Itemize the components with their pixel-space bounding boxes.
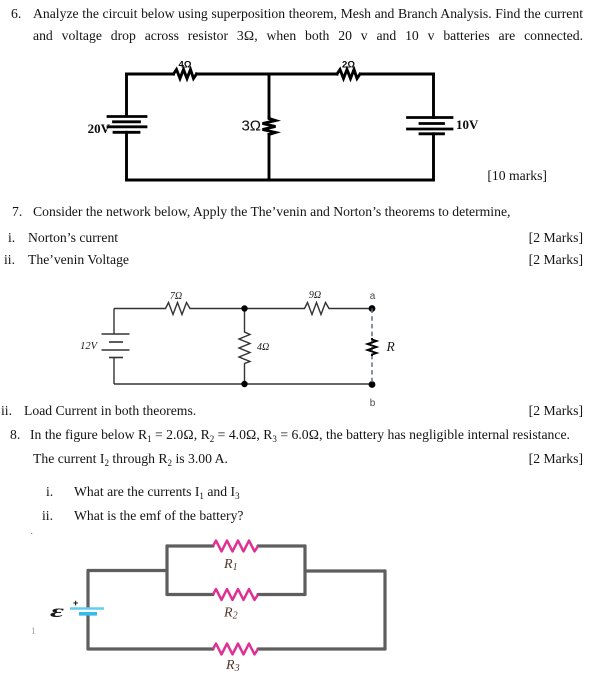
wire parallel box left edge (165, 546, 168, 595)
node a (369, 305, 376, 312)
Q6 line 1 (11, 7, 21, 21)
wire top-left segment (127, 73, 174, 76)
svg-text:+: + (73, 598, 78, 608)
svg-text:a: a (370, 291, 376, 302)
resistor R3 (213, 644, 258, 655)
svg-text:R3: R3 (225, 658, 240, 674)
wire bottom left segment c3 (88, 647, 213, 650)
wire left vertical top (125, 74, 128, 116)
svg-text:R: R (386, 339, 396, 354)
wire box top edge right (258, 544, 305, 547)
svg-text:R2: R2 (223, 606, 238, 622)
marks Q6 (487, 169, 547, 183)
Q8 i (46, 485, 53, 499)
resistor 9ohm (302, 303, 332, 315)
resistor 7ohm (163, 303, 193, 315)
wire top-left segment c2 (114, 308, 163, 310)
resistor 4ohm vertical (239, 330, 250, 364)
wire left vertical bottom (125, 132, 128, 180)
svg-text:3Ω: 3Ω (241, 118, 261, 135)
wire box bottom edge left (167, 593, 213, 596)
wire left vertical upper c3 (86, 571, 89, 608)
Q7 ii (4, 253, 15, 267)
wire left vertical bottom c2 (113, 358, 115, 385)
wire middle vertical top (268, 74, 271, 117)
wire box top edge left (167, 544, 213, 547)
svg-text:10V: 10V (456, 117, 479, 132)
wire box right edge (303, 546, 306, 595)
wire left vertical top c2 (113, 309, 115, 335)
svg-text:4Ω: 4Ω (179, 60, 192, 71)
wire bottom c2 (114, 383, 372, 385)
battery emf long plate (70, 607, 104, 610)
svg-text:4Ω: 4Ω (257, 342, 269, 353)
battery emf short plate (79, 612, 97, 616)
wire bottom right segment c3 (258, 647, 385, 650)
stray dot (30, 528, 33, 542)
resistor 2ohm (337, 70, 360, 79)
svg-text:12V: 12V (80, 341, 99, 352)
dashed link a-b (371, 309, 373, 385)
svg-text:9Ω: 9Ω (309, 290, 321, 301)
wire mid-right c3 (305, 569, 385, 572)
wire mid vertical bottom c2 (244, 364, 246, 384)
svg-text:7Ω: 7Ω (170, 291, 182, 302)
wire mid-left c3 (88, 569, 167, 572)
svg-text:ε: ε (50, 601, 66, 621)
Q7 i (8, 231, 15, 245)
wire left vertical lower c3 (86, 615, 89, 649)
stray mark (31, 624, 36, 638)
wire top-right segment c2 (332, 308, 373, 310)
resistor R2 (213, 589, 258, 600)
resistor 4ohm (174, 70, 197, 79)
node junction top (241, 305, 247, 311)
Q7 iii load current (1, 404, 12, 418)
node b (369, 381, 376, 388)
Q6 line 2 (33, 29, 583, 43)
wire mid vertical top c2 (244, 309, 246, 331)
wire top-mid segment c2 (193, 308, 303, 310)
svg-text:20V: 20V (88, 121, 111, 136)
wire bottom (127, 179, 434, 182)
wire right vertical bottom (432, 134, 435, 180)
resistor R load (368, 338, 377, 356)
Q8 heading (10, 428, 20, 442)
svg-text:b: b (370, 398, 376, 409)
svg-text:2Ω: 2Ω (342, 60, 355, 71)
battery 20V plates (108, 117, 146, 133)
wire top-middle segment (197, 73, 338, 76)
battery 10V plates (408, 118, 453, 134)
wire box bottom edge right (258, 593, 305, 596)
wire top-right segment (361, 73, 434, 76)
svg-text:R1: R1 (223, 557, 238, 573)
wire right vertical top (432, 74, 435, 118)
resistor R1 (213, 541, 258, 552)
resistor 3ohm vertical (263, 117, 276, 135)
Q7 heading (12, 205, 22, 219)
wire middle vertical bottom (268, 135, 271, 181)
wire right vertical c3 (383, 571, 386, 649)
Q8 ii (42, 509, 53, 523)
node junction bottom (241, 381, 247, 387)
battery 12V plates (102, 334, 130, 358)
